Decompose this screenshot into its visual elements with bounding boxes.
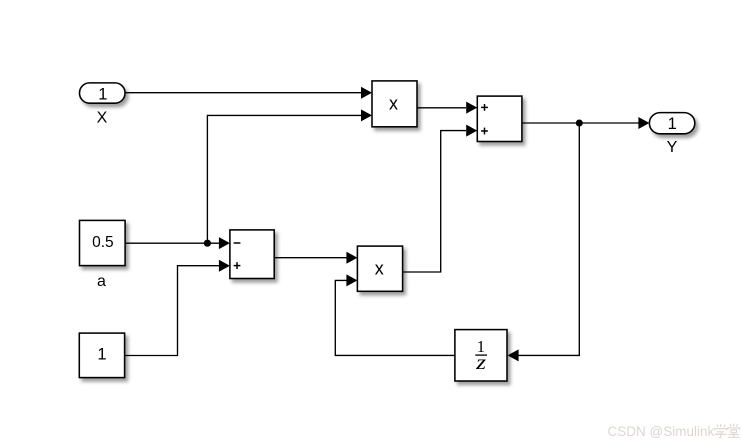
wire branch from junction up to product P1 input 2 bbox=[207, 109, 372, 243]
CJK char tang bbox=[728, 424, 740, 438]
label a bbox=[97, 273, 106, 290]
svg-text:z: z bbox=[475, 352, 486, 374]
svg-text:a: a bbox=[97, 273, 106, 290]
wire subtract S1 out to product P2 input 1 bbox=[274, 252, 357, 264]
wire constant one to subtract S1 plus input bbox=[125, 260, 230, 356]
constant one (1) bbox=[79, 333, 124, 378]
svg-text:Y: Y bbox=[667, 139, 678, 156]
product P2 (x) bbox=[357, 246, 402, 291]
wire product P1 out to sum S2 input 1 bbox=[417, 102, 477, 114]
wire unit delay D1 out to product P2 input 2 bbox=[335, 274, 455, 355]
wire product P2 out up to sum S2 input 2 bbox=[403, 125, 478, 272]
wire X to product P1 input 1 bbox=[126, 87, 373, 99]
svg-text:x: x bbox=[375, 258, 384, 278]
wire constant a to subtract S1 minus input bbox=[125, 237, 230, 249]
svg-text:X: X bbox=[97, 110, 108, 127]
svg-text:CSDN @Simulink: CSDN @Simulink bbox=[608, 424, 715, 439]
constant a (0.5) bbox=[80, 220, 126, 265]
wire sum S2 out to outport Y bbox=[522, 117, 650, 129]
sum S2 (+ +) bbox=[477, 96, 522, 141]
CJK char xue bbox=[715, 424, 728, 438]
wire feedback from junction down to unit delay D1 input bbox=[508, 123, 580, 361]
svg-text:1: 1 bbox=[668, 115, 677, 133]
wire branch junction dot on a-line bbox=[204, 240, 211, 247]
product P1 (x) bbox=[372, 81, 417, 127]
label X bbox=[97, 110, 108, 127]
inport X (oval "1") bbox=[80, 83, 126, 103]
watermark CSDN @Simulink xuetang bbox=[608, 424, 740, 440]
junction dot on output line bbox=[576, 120, 583, 127]
svg-text:0.5: 0.5 bbox=[92, 234, 114, 251]
svg-text:1: 1 bbox=[97, 345, 106, 363]
svg-text:x: x bbox=[389, 94, 398, 114]
label Y bbox=[667, 139, 678, 156]
outport Y (oval "1") bbox=[649, 113, 694, 134]
unit delay D1 (1/z) bbox=[455, 330, 507, 381]
svg-text:1: 1 bbox=[98, 85, 107, 103]
subtract S1 (- +) bbox=[230, 230, 274, 279]
